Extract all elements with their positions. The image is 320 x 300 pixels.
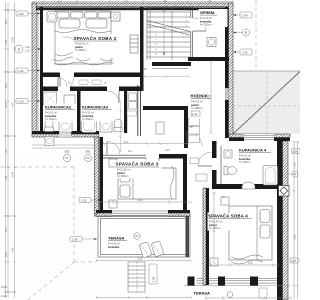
sink kup3 <box>100 121 112 132</box>
washer kup4 <box>224 150 232 158</box>
wall bedroom2-bottom <box>43 73 144 78</box>
svg-text:keramika: keramika <box>108 245 120 249</box>
svg-text:3,60: 3,60 <box>124 142 129 144</box>
dim chain left outer pair <box>4 2 16 298</box>
label bedroom4 <box>208 213 254 231</box>
stair tread numbers <box>155 10 188 56</box>
door gap sprem <box>190 18 194 31</box>
terrace loungers <box>139 241 164 258</box>
svg-text:1,95: 1,95 <box>294 162 297 167</box>
svg-text:PA: PA <box>86 157 89 160</box>
door arc corridor-south <box>107 142 120 155</box>
wall terrace-right strip <box>186 216 190 257</box>
svg-text:2,90: 2,90 <box>5 83 8 88</box>
cabinet hodnik <box>156 122 164 134</box>
tub kup4 <box>263 166 278 186</box>
wall atrium-bottom core <box>229 138 290 142</box>
stair direction line <box>163 9 165 54</box>
column diamond marker <box>279 186 290 197</box>
svg-text:4,80: 4,80 <box>11 247 14 252</box>
dashed guide vertical right <box>255 0 257 71</box>
drain PA bottom terrace <box>227 292 233 298</box>
wall corridor-right strip <box>138 85 141 136</box>
svg-text:h= 250cm: h= 250cm <box>239 160 250 164</box>
svg-text:2,45: 2,45 <box>11 102 14 107</box>
wall sprem-bottom <box>188 57 229 61</box>
toilet kup4 <box>224 167 228 175</box>
svg-text:2.04: 2.04 <box>242 13 248 17</box>
door arc hodnik-south <box>187 131 202 146</box>
svg-text:TERASA: TERASA <box>194 291 211 296</box>
cabinet kup2 right <box>64 95 75 109</box>
svg-text:12,93: 12,93 <box>11 36 14 43</box>
wardrobe shelves corridor east <box>189 118 208 181</box>
svg-text:SPREM.: SPREM. <box>200 10 215 15</box>
washer below wall <box>45 137 54 146</box>
door arc kup2 <box>58 78 67 87</box>
wall right-lower hatch <box>283 141 289 300</box>
door gap bedroom2 <box>60 73 74 78</box>
dashed guide horizontal left <box>0 166 74 168</box>
stair center line <box>171 7 173 60</box>
tag E circle left <box>15 45 41 53</box>
atrium dashed horizontal <box>233 105 300 107</box>
label bedroom2 <box>73 34 118 59</box>
wall bedroom3-right <box>183 154 187 210</box>
svg-text:1,30: 1,30 <box>25 49 30 52</box>
shaft appliances column <box>129 93 137 101</box>
wall stairs-right thin <box>191 7 193 61</box>
svg-text:1.08: 1.08 <box>152 276 156 282</box>
svg-text:Ø50: Ø50 <box>86 151 91 154</box>
svg-text:1.05: 1.05 <box>81 198 87 202</box>
dim text left <box>5 19 15 257</box>
small interior dim texts <box>68 69 225 199</box>
wall stairs-bottom <box>152 62 191 66</box>
door arc bedroom2 <box>60 77 74 91</box>
atrium dashed vertical <box>266 71 268 134</box>
wall bedroom3-bottom hatch <box>96 213 190 217</box>
wall kup4-left liner <box>220 146 222 184</box>
nightstand bedroom4 bottom <box>210 258 218 266</box>
wall bedroom4-top core <box>212 184 278 189</box>
wall bedroom2-right <box>140 7 144 91</box>
dim chain top <box>32 0 233 3</box>
terrace bottom-right edge line <box>184 285 290 287</box>
svg-text:6,10: 6,10 <box>5 102 8 107</box>
tub kup3 <box>82 117 97 133</box>
svg-text:KUPAONICA 4: KUPAONICA 4 <box>239 148 267 153</box>
label terasa <box>107 235 131 250</box>
wall left-lower hatch <box>95 137 99 216</box>
tag E circle right <box>233 29 250 36</box>
nightstand bedroom3 top <box>109 159 117 167</box>
nightstand bedroom3 bottom <box>109 200 117 208</box>
nightstand bedroom4 top <box>221 197 229 205</box>
door arc bedroom3 <box>146 158 159 171</box>
sink kup4 <box>242 182 255 189</box>
wall right-upper core <box>225 7 229 138</box>
dim line bedroom4 left vertical <box>213 192 216 264</box>
svg-text:+0,00: +0,00 <box>1 285 8 289</box>
wall bedroom4-south glazed: posts <box>188 277 259 286</box>
tag E circle right2 <box>286 171 298 177</box>
svg-text:0,95: 0,95 <box>5 19 8 24</box>
svg-text:TERASA: TERASA <box>108 236 125 241</box>
tag corridor 1 <box>79 80 88 85</box>
door gap kup3 <box>107 87 119 92</box>
label kupaonica2 <box>44 104 77 122</box>
dim line bedroom4 bottom <box>210 264 279 267</box>
dim line under terrace <box>96 259 192 262</box>
svg-text:SPAVAĆA SOBA 2: SPAVAĆA SOBA 2 <box>74 34 117 41</box>
svg-text:h= 250cm: h= 250cm <box>45 117 56 121</box>
wall left exterior hatch <box>32 3 36 136</box>
svg-text:1.01: 1.01 <box>192 112 198 116</box>
svg-text:h= 280cm: h= 280cm <box>209 226 220 230</box>
shower kup2 <box>44 92 57 105</box>
svg-text:1,10: 1,10 <box>248 263 253 265</box>
tag door left4 <box>70 237 97 242</box>
door arc kup3 <box>107 91 119 103</box>
dim line bottom right <box>205 297 292 300</box>
terrace drain circle <box>134 233 140 239</box>
dim line above bedroom3 south wall <box>96 201 192 204</box>
wall bedroom4-left core <box>206 188 209 285</box>
dim line hodnik vertical <box>210 61 213 134</box>
svg-text:KUPAONICA3: KUPAONICA3 <box>82 105 109 110</box>
tag bottom vertical <box>149 264 157 284</box>
dim line above bedroom3 top wall <box>103 142 189 145</box>
svg-text:E: E <box>294 172 296 176</box>
dashed guide horizontal at terrace <box>74 261 96 263</box>
svg-text:PA: PA <box>65 157 68 160</box>
dashed guide vertical left <box>73 167 75 262</box>
stair break line <box>147 21 190 36</box>
svg-text:2.05: 2.05 <box>242 50 248 54</box>
svg-text:1,48: 1,48 <box>165 150 170 152</box>
bed bedroom4 <box>229 206 272 264</box>
wall bedroom4-south glazing <box>197 279 278 284</box>
staircase <box>147 7 190 60</box>
svg-text:1,48: 1,48 <box>5 175 8 180</box>
tag window right3 <box>292 149 301 154</box>
wall right-lower core <box>277 141 283 300</box>
tag window right1 <box>233 12 252 18</box>
tag window left-bath <box>16 99 40 104</box>
tag shaft <box>127 111 137 116</box>
dim ticks left <box>5 9 16 293</box>
wall kup4-left lower <box>212 170 217 184</box>
wall bedroom4-left hatch <box>203 188 206 285</box>
dashed guide diagonal bottom-left <box>28 262 74 300</box>
wall left cavity lines <box>37 7 38 132</box>
ledge lines below bathrooms <box>32 145 96 148</box>
sink kup2 <box>59 121 72 132</box>
svg-text:h= 280cm: h= 280cm <box>75 48 86 52</box>
dim text top <box>58 1 213 3</box>
drain PA left 1 <box>64 155 71 162</box>
svg-text:1.04: 1.04 <box>18 69 24 73</box>
wall kup2-kup3 divider <box>77 91 81 133</box>
wall right-upper hatch <box>229 3 234 137</box>
window atrium-bottom wall <box>244 134 274 141</box>
tag bottom terrace vertical <box>259 288 267 298</box>
wall top core <box>36 7 233 10</box>
tag right bottom <box>290 258 299 263</box>
label kupaonica3 <box>81 104 114 122</box>
tag door left3 <box>79 198 100 203</box>
svg-text:h= 280cm: h= 280cm <box>117 174 128 178</box>
dim text right bottom <box>294 162 297 239</box>
dim line below terrace area <box>96 296 192 299</box>
wall bedroom3-bottom core <box>96 210 190 213</box>
svg-text:h= 280cm: h= 280cm <box>191 106 202 110</box>
svg-text:HODNIK: HODNIK <box>191 94 209 99</box>
nightstand bedroom2 right <box>111 12 120 21</box>
svg-text:Ø50: Ø50 <box>65 151 70 154</box>
door gap kup2 <box>58 87 70 92</box>
svg-text:2,93: 2,93 <box>138 199 143 202</box>
svg-text:E: E <box>245 31 247 35</box>
svg-text:6,55: 6,55 <box>5 39 8 44</box>
toilet kup3 <box>114 119 122 129</box>
window bathroom-bottom <box>59 131 71 137</box>
svg-text:2.06: 2.06 <box>293 149 299 153</box>
svg-text:1,40: 1,40 <box>5 149 8 154</box>
svg-text:h= 250cm: h= 250cm <box>200 23 211 27</box>
tag window left1 <box>16 11 40 16</box>
atrium top edge <box>233 70 300 72</box>
ground dots bottom middle <box>96 258 202 300</box>
svg-text:KUPAONICA2: KUPAONICA2 <box>45 105 72 110</box>
wall top exterior hatch <box>32 3 233 7</box>
landing line below stairs <box>152 68 188 70</box>
window hodnik east wall <box>225 88 229 100</box>
label bedroom3 <box>116 160 162 179</box>
svg-text:h= 250cm: h= 250cm <box>82 117 93 121</box>
label kupaonica4 <box>238 147 273 165</box>
svg-text:PA: PA <box>135 235 138 238</box>
label sprem <box>199 9 228 27</box>
toilet kup2 <box>45 119 53 129</box>
wall stairwell-south vertical <box>184 106 188 148</box>
nightstand bedroom2 left <box>47 12 57 23</box>
window bedroom3 south <box>112 210 168 217</box>
terrace outline <box>98 216 190 257</box>
atrium gray square <box>233 71 300 134</box>
wall left-lower core <box>100 137 104 216</box>
wall left-lower cavity line <box>98 137 100 216</box>
label hodnik <box>190 93 214 119</box>
wall left core <box>40 7 43 132</box>
ground dots below bathrooms <box>30 137 96 151</box>
ground dots left <box>0 150 96 300</box>
svg-text:16,45: 16,45 <box>11 171 14 178</box>
wall kup3-right <box>124 91 127 133</box>
svg-text:7,60: 7,60 <box>5 252 8 257</box>
svg-text:SPAVAĆA SOBA 3: SPAVAĆA SOBA 3 <box>116 160 159 167</box>
wall stairwell-south horizontal <box>143 106 188 110</box>
svg-text:1.09: 1.09 <box>18 99 24 103</box>
boiler sprem <box>207 38 216 47</box>
wall bathroom-bottom hatch <box>32 134 99 137</box>
dim line corridor vertical <box>119 100 122 152</box>
svg-text:5,08: 5,08 <box>138 258 143 261</box>
drain PA left 2 <box>85 155 92 162</box>
svg-text:1.06: 1.06 <box>72 237 78 241</box>
tag window right2 <box>233 49 252 55</box>
wall kup4-left upper <box>212 141 217 158</box>
svg-text:2,52: 2,52 <box>209 94 211 99</box>
bed bedroom2 <box>53 11 114 65</box>
svg-text:3,20: 3,20 <box>5 227 8 232</box>
wall atrium-bottom hatch <box>229 134 290 138</box>
tag corridor 2 <box>92 80 101 85</box>
dim line corridor under stairs <box>144 75 190 78</box>
svg-text:-0,15: -0,15 <box>1 294 7 298</box>
radiator corridor <box>130 35 138 53</box>
wall bathrooms-top <box>43 87 141 92</box>
bed bedroom3 <box>118 166 176 199</box>
wall bedroom3-top pier <box>159 154 187 159</box>
wall bedroom3-top thin part <box>103 155 146 158</box>
wall bathroom-bottom core <box>32 131 99 134</box>
dim chain right bottom <box>293 141 299 299</box>
svg-text:3,85: 3,85 <box>294 234 297 239</box>
atrium diagonal <box>234 72 301 134</box>
bottom-left level mark <box>1 285 8 298</box>
svg-text:1.03: 1.03 <box>18 12 24 16</box>
door arc sprem <box>193 18 206 31</box>
outdoor steps <box>128 262 145 292</box>
door arc kup4 <box>198 152 212 166</box>
tag window left2 <box>16 68 40 73</box>
